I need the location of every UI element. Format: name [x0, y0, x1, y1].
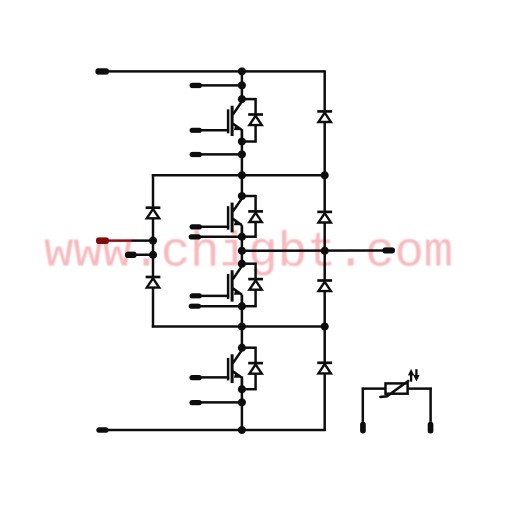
node right column / box top [321, 171, 329, 179]
node bottom rail / trunk [238, 426, 246, 434]
node Q2 collector [238, 192, 246, 200]
terminal T3 gate [190, 293, 203, 298]
diode D2 (Q2 freewheel) [248, 211, 263, 222]
transistor Q3 (IGBT) [201, 266, 242, 306]
diode D7 [317, 281, 332, 292]
wire T4 emitter-aux [201, 401, 242, 404]
node output / trunk [238, 247, 246, 255]
terminal T3 emitter [189, 304, 202, 309]
terminal P (DC+) top-left [95, 68, 109, 74]
terminal neutral (dark red) [96, 237, 109, 244]
wire clamp box bottom [152, 325, 325, 328]
terminal T2 gate [190, 224, 203, 229]
wire top rail [108, 70, 325, 73]
diode D10 (left clamp bottom) [146, 277, 161, 288]
diode D9 (left clamp top) [146, 208, 161, 219]
node T1 collector-aux [238, 81, 246, 89]
diode D4 (Q4 freewheel) [248, 363, 263, 374]
NTC characteristic arrows [408, 369, 420, 382]
wire T2 emitter lead [200, 235, 242, 238]
wire bottom rail [108, 429, 326, 432]
node T4 emitter-aux [238, 398, 246, 406]
node right column / box bottom [321, 322, 329, 330]
wire diode branch of Q1 [242, 98, 256, 143]
terminal N (DC-) bottom-left [96, 427, 108, 433]
wire diode branch of Q2 [242, 195, 256, 238]
wire NTC right lead [408, 387, 432, 390]
wire neutral dark red segment [109, 239, 132, 242]
transistor Q2 (IGBT) [201, 198, 242, 236]
terminal T2 emitter [189, 234, 202, 239]
wire main trunk segments [241, 71, 244, 430]
thermistor RT1 (NTC) body [380, 381, 408, 397]
wire diode branch of Q3 [242, 263, 256, 308]
terminal T1 collector-aux [190, 83, 203, 88]
wire T1 emitter-aux [201, 153, 242, 156]
wire NTC left lead [362, 387, 365, 422]
node box bottom / trunk [238, 322, 246, 330]
node Q4 emitter [238, 385, 246, 393]
node Q2 emitter [238, 233, 246, 241]
node T1 emitter-aux [238, 150, 246, 158]
terminal neutral 2 (black) [125, 252, 137, 258]
node box top / trunk [238, 171, 246, 179]
terminal T4 gate [189, 375, 202, 380]
wire diode branch of Q4 [242, 347, 256, 391]
wire neutral black segment [132, 239, 154, 242]
wire right diode column [323, 70, 326, 430]
node Q1 emitter [238, 137, 246, 145]
node Q1 collector [238, 95, 246, 103]
node clamp column lower [149, 251, 157, 259]
terminal NTC left pin [360, 422, 366, 434]
diode D1 (Q1 freewheel) [248, 115, 263, 126]
wire clamp box top [152, 174, 325, 177]
terminal T4 emitter-aux [189, 400, 202, 405]
wire left clamp column [152, 174, 155, 328]
diode D6 [317, 212, 332, 223]
transistor Q1 (IGBT) [201, 102, 242, 142]
terminal output right [382, 247, 395, 253]
diode D8 (right column bottom) [317, 363, 332, 374]
wire T3 emitter lead [200, 305, 242, 308]
node Q3 emitter [238, 302, 246, 310]
terminal T1 gate [190, 128, 203, 133]
node clamp column upper [149, 237, 157, 245]
terminal NTC right pin [428, 422, 434, 434]
node right column / output [321, 247, 329, 255]
wire output (phase) [242, 249, 384, 252]
diode D5 (right column top) [317, 111, 332, 122]
node Q3 collector [238, 260, 246, 268]
terminal T1 emitter-aux [190, 152, 203, 157]
diode D3 (Q3 freewheel) [248, 279, 263, 290]
transistor Q4 (IGBT) [201, 350, 242, 389]
wire T1 collector-aux [201, 84, 242, 87]
wire neutral 2 [136, 254, 154, 257]
node Q4 collector [238, 344, 246, 352]
node top rail / trunk [238, 67, 246, 75]
